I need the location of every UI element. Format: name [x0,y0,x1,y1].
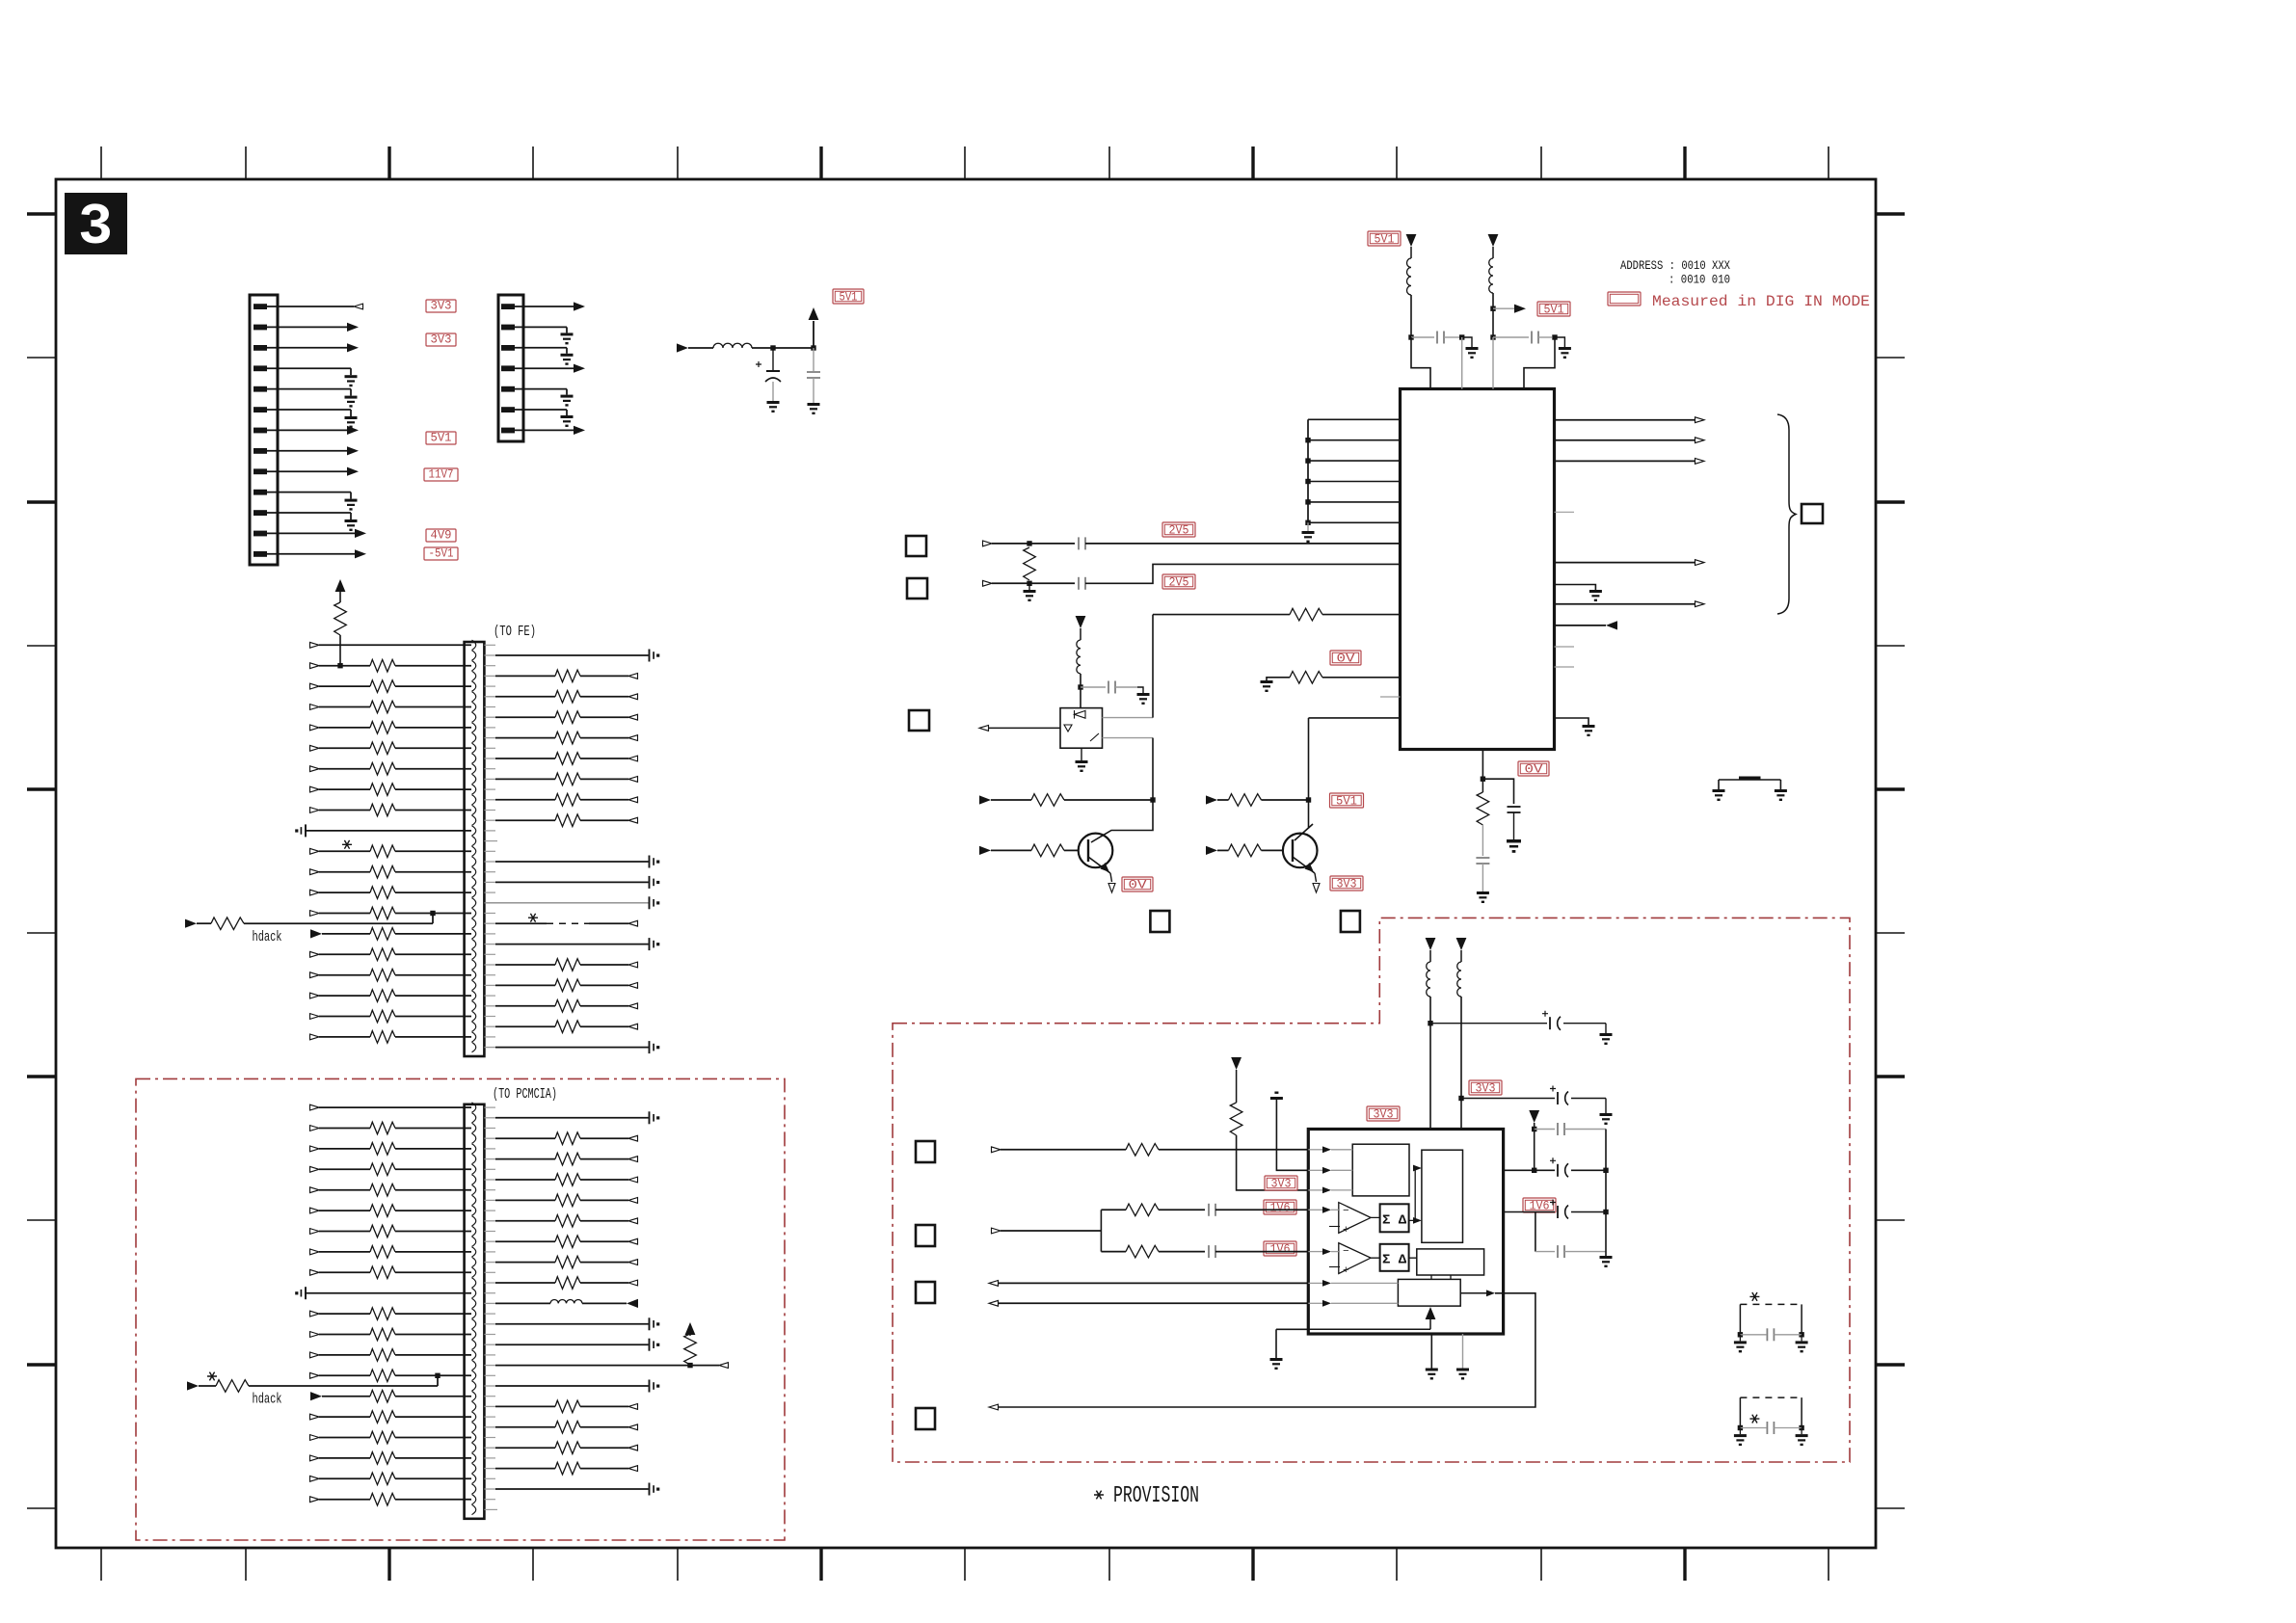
wire CN-A pin 13 to arrow [266,553,355,555]
transistor Q2 [1283,834,1318,868]
wire PC left row 3 input arrow [310,1146,320,1152]
net label 5V1 [833,289,864,304]
wire bus vertical [1307,419,1309,522]
wire to ground [1462,337,1472,347]
power arrow down 3V3 left [1231,1057,1241,1070]
capacitor C1 electrolytic [772,348,774,371]
wire FE right row 18 to arrow [580,1005,628,1007]
ground [1713,789,1725,801]
wire PC right row 5 [484,1199,495,1201]
IC U1 body [1401,389,1555,750]
wire FE left row 9 input arrow [310,808,320,813]
DAC internal wiring [1371,1168,1451,1279]
connector CN-A pin 1 [254,304,267,309]
test point square [1341,911,1360,932]
series capacitor 2V5B [1078,577,1080,590]
Q1 emitter [1088,857,1110,873]
stub [484,1416,495,1418]
resistor PC right row 7 [555,1236,580,1248]
ground [1270,1358,1283,1370]
wire IC input arrow [1555,625,1607,626]
wire FE left row 3 input arrow [310,683,320,689]
ground [1466,347,1479,359]
wire PC right row 15 [484,1405,495,1407]
wire FE left row 3 [395,685,471,687]
wire 2V5B [992,582,1075,584]
wire PC right row 6 [484,1220,495,1222]
net label -5V1 [424,547,458,560]
resistor FE left row 2 [370,659,395,672]
svg-text:1V6: 1V6 [1270,1202,1291,1215]
wire hdack2 to PC row 14 [249,1385,438,1387]
test point square [916,1225,935,1246]
wire hdack2 input [187,1381,199,1390]
stub IC pin [1555,666,1575,668]
gray row cap [1535,1129,1555,1131]
ground [1796,1434,1808,1446]
net label 5V1 [426,432,456,444]
ground [1302,531,1315,543]
stub [484,1231,495,1233]
decoupling cap [649,1111,651,1124]
buffer U2 output tick [1090,733,1099,741]
wire PC right row 17 [484,1447,495,1449]
wire FE left row 6 input arrow [310,745,320,751]
wire PC right row 9 to arrow [580,1282,628,1284]
resistor FE right row 7 [555,773,580,785]
stub [484,953,495,955]
buffer U2 inverter symbol [1064,725,1072,732]
ground [767,401,780,412]
wire FE left row 5 input arrow [310,725,320,731]
DAC output row F [989,1281,999,1287]
junction [1408,334,1413,339]
svg-text:4V9: 4V9 [431,529,452,543]
wire to junction [1064,799,1153,801]
wire rail R [1460,997,1462,1130]
wire Q2 collector input arrow [1206,795,1217,804]
page number badge 3 [65,193,127,254]
wire PC right row 8 to arrow [580,1262,628,1264]
connector CN-A pin 8 [254,448,267,454]
junction [1305,499,1310,504]
provision boundary box (PCMCIA) [136,1078,785,1540]
svg-text:: 0010 010: : 0010 010 [1669,273,1730,287]
wire base [1064,849,1079,851]
resistor 3V3 drop [1230,1103,1242,1135]
wire PC left row 9 input arrow [310,1269,320,1275]
svg-text:(TO FE): (TO FE) [494,624,536,640]
ground [1456,1369,1469,1380]
svg-text:PROVISION: PROVISION [1113,1483,1199,1509]
transistor Q1 [1079,834,1113,868]
ground [561,354,574,365]
resistor PC left row 4 [370,1163,395,1176]
net label 1V6 measured [1264,1241,1296,1256]
wire PC left row 7 [395,1231,471,1233]
wire FE left row 20 [395,1036,471,1038]
resistor FE right row 18 [555,1000,580,1013]
wire PC left row 4 [395,1168,471,1170]
bypass cap DAC rail L [1430,1023,1547,1024]
wire PC left row 11 input arrow [310,1311,320,1317]
pull-up rail arrow [685,1322,696,1335]
junction [770,345,775,350]
wire inside to control block [1308,1328,1430,1330]
test point square [916,1282,935,1303]
stub [484,727,495,729]
net label 3V3 [426,333,456,346]
wire FE right row 6 [484,758,495,759]
wire PC right row 17 to arrow [580,1447,628,1449]
wire to junction [1262,799,1309,801]
svg-text:5V1: 5V1 [1336,795,1357,809]
wire IC pin to ground [1555,718,1589,725]
wire PC left row 12 [395,1334,471,1336]
ground [1734,1341,1747,1352]
resistor PC right row 2 [555,1132,580,1145]
stub [484,933,495,935]
wire buffer lower output [1103,737,1154,739]
ground [1796,1341,1808,1352]
wire row E [1101,1251,1126,1253]
resistor row A [1126,1144,1159,1157]
net label 4V9 [426,529,456,542]
wire CN-A pin 4 to ground [266,367,351,369]
ground stub [1028,583,1030,590]
wire rail2 [1492,293,1494,337]
junction [1305,438,1310,442]
wire CN-A pin 5 to ground [266,388,351,390]
svg-text:Σ Δ: Σ Δ [1382,1213,1407,1229]
wire CN-B pin 2 to ground [514,326,567,328]
wire rail1 to node [1410,295,1412,337]
provision mark [342,840,352,849]
wire FE left row 12 input arrow [310,869,320,875]
wire FE left row 8 input arrow [310,786,320,792]
stub [484,644,495,646]
wire CN-B pin 4 to arrow [514,367,574,369]
wire FE left row 2 [395,665,471,667]
resistor PC right row 15 [555,1400,580,1413]
resistor PC right row 6 [555,1215,580,1228]
connector CN-A body [250,295,278,565]
wire rail1 [1410,247,1412,258]
wire PC left row 14 [395,1374,471,1376]
input arrow row 2V5 A [983,541,993,546]
wire FE right row 4 to arrow [580,716,628,718]
stub [484,1334,495,1336]
inductor rail2 [1489,258,1493,293]
resistor Q2 collector net [1229,794,1262,807]
wire PC right row 12 [484,1344,495,1345]
connector CN-B body [498,295,523,441]
resistor row E [1126,1245,1159,1258]
wire PC left row 2 [395,1128,471,1130]
wire FE right row 19 to arrow [580,1025,628,1027]
connector CN-A pin 12 [254,531,267,537]
connector CN-B pin 2 [501,325,515,331]
junction [1305,520,1310,525]
resistor FE left row 19 [370,1010,395,1023]
stub [484,1210,495,1211]
wire PC right row 3 to arrow [580,1158,628,1160]
wire CN-B pin 6 to ground [514,409,567,411]
connector CN-FE (TO FE) body [465,642,485,1056]
resistor row D [1126,1204,1159,1216]
resistor FE left row 13 [370,887,395,899]
svg-text:0V: 0V [1337,652,1356,666]
wire CN-A pin 12 to arrow [266,532,355,534]
svg-text:hdack: hdack [253,930,282,945]
wire FE right row 7 [484,778,495,780]
resistor FE right row 3 [555,691,580,704]
resistor FE right row 4 [555,711,580,724]
bypass capacitor rail1 [1411,336,1434,338]
junction [1306,797,1311,802]
wire FE right row 12 [484,881,495,883]
inductor L1 [713,343,752,348]
wire rail L [1429,997,1431,1130]
junction [337,663,342,668]
pull-up rail arrow [335,579,346,592]
junction [1428,1021,1432,1025]
resistor pull-up PC [684,1334,697,1365]
connector CN-FE pin contacts [472,640,476,1052]
wire bus row 1 to IC [1308,418,1401,420]
net label 5V1 measured [1368,231,1401,246]
resistor Q1 collector net [1031,794,1064,807]
resistor 0V row [1290,672,1322,684]
resistor FE left row 8 [370,784,395,796]
stub [484,1189,495,1191]
wire PC right row 6 to arrow [580,1220,628,1222]
wire [1080,628,1081,640]
svg-text:-5V1: -5V1 [429,547,454,561]
wire [1460,950,1462,962]
DAC U3 body [1308,1130,1503,1335]
wire IC output [1555,419,1696,421]
junction [1305,479,1310,484]
junction [1078,684,1082,689]
resistor PC right row 18 [555,1462,580,1475]
wire FE right row 7 to arrow [580,778,628,780]
junction [687,1363,692,1368]
wire PC right row 3 [484,1158,495,1160]
decoupling cap [649,876,651,889]
stub [484,891,495,893]
net label 1V6 measured [1523,1198,1556,1212]
wire FE left row 10 [305,830,471,832]
DAC ground stem 2 [1462,1334,1464,1369]
resistor PC left row 15 [370,1390,395,1402]
wire PC left row 15 [395,1396,471,1397]
stub [484,1477,495,1479]
connector CN-A pin 6 [254,407,267,412]
wire bus row 5 to IC [1308,501,1401,503]
resistor PC right row 8 [555,1256,580,1268]
wire FE right row 14 (provision, dashed) [484,922,495,924]
wire FE left row 8 [395,788,471,790]
wire hdack input [185,919,197,928]
connector CN-B pin 1 [501,304,515,309]
wire PC left row 6 input arrow [310,1208,320,1213]
resistor R-pullup [334,602,347,635]
wire [1159,1251,1205,1253]
svg-text:−: − [1343,1206,1349,1217]
legend measured box icon [1608,292,1641,306]
junction [1490,306,1495,311]
junction [1305,458,1310,463]
stub [484,1457,495,1459]
stub [484,810,495,811]
provision mark [207,1372,217,1381]
wire CN-A pin 6 to ground [266,409,351,411]
wire FE left row 5 [395,727,471,729]
power rail 1 arrow down [1406,234,1417,247]
resistor FE right row 17 [555,979,580,992]
wire IC pin to ground [1555,585,1596,591]
wire FE left row 18 [395,995,471,997]
stub [484,706,495,708]
connector CN-A pin 13 [254,551,267,557]
stub [484,850,495,852]
net label 0V measured [1518,761,1549,776]
DAC filter block [1422,1150,1463,1242]
buffer U2 body [1060,708,1103,749]
decoupling cap FE left row 10 [305,824,307,837]
wire CN-A pin 8 to arrow [266,450,348,452]
DAC decoder block [1417,1249,1484,1275]
wire bus row 4 to IC [1308,481,1401,483]
DAC input row A arrow [992,1147,1001,1153]
net label 3V3 measured [1469,1080,1502,1095]
wire to cap branch [1482,779,1513,804]
resistor PC right row 16 [555,1422,580,1434]
wire CN-A pin 2 to arrow [266,326,348,328]
stub [484,1271,495,1273]
wire ground to resistor [1267,678,1290,680]
ground [345,519,358,531]
decoupling cap [649,896,651,909]
wire FE left row 14 [395,913,471,915]
power rail 2 arrow down [1488,234,1499,247]
wire FE left row 14 input arrow [310,911,320,917]
inductor buffer rail [1077,640,1081,674]
power input arrow [677,343,688,352]
bypass capacitor rail2 [1493,336,1529,338]
wire CN-A pin 11 to ground [266,512,351,514]
decoupling cap [649,1317,651,1330]
wire IC output [1555,460,1696,462]
wire inductor to 5V1 node [752,347,814,349]
junction [1552,334,1557,339]
wire FE right row 9 [484,819,495,821]
wire PC left row 5 [395,1189,471,1191]
stub IC pin [1380,696,1401,698]
connector CN-A pin 7 [254,428,267,434]
stub [484,1499,495,1501]
wire PC right row 16 [484,1426,495,1428]
wire 2V5B to IC with jog [1085,564,1401,583]
wire to 5V1 tag [1493,307,1514,309]
wire rail2 [1492,247,1494,258]
wire stem [1534,1123,1535,1170]
wire CN-B pin 5 to ground [514,388,567,390]
provision capacitor network [1740,1397,1802,1398]
resistor PC left row 8 [370,1246,395,1259]
stub [484,1016,495,1018]
wire to DAC [1215,1251,1308,1253]
DAC serial out row [1486,1290,1495,1296]
wire PC left row 4 input arrow [310,1166,320,1172]
wire FE left row 11 input arrow [310,848,320,854]
resistor FE right row 2 [555,670,580,682]
resistor PC left row 11 [370,1308,395,1320]
svg-text:5V1: 5V1 [840,291,858,305]
wire Q2 base input arrow [1206,846,1217,855]
wire PC right row 7 to arrow [580,1240,628,1242]
connector CN-PC pin contacts [472,1103,476,1515]
net label 0V measured [1330,651,1361,665]
wire PC right row 1 [484,1117,495,1119]
wire PC right row 10 ferrite [484,1302,495,1304]
wire hdack to FE row 14 [244,922,433,924]
wire PC right row 2 [484,1137,495,1139]
wire PC left row 17 [395,1437,471,1439]
wire FE right row 13 [484,902,648,904]
5V1 rail arrow up [813,321,814,348]
connector CN-A pin 11 [254,510,267,516]
wire base [1262,849,1284,851]
wire FE left row 18 input arrow [310,993,320,998]
wire PC right row 5 to arrow [580,1199,628,1201]
resistor PC left row 13 [370,1349,395,1362]
wire to junction [1080,674,1081,708]
junction [1603,1210,1608,1214]
resistor FE left row 3 [370,680,395,693]
test point square [909,710,929,731]
resistor PC left row 17 [370,1431,395,1444]
decoupling cap [649,1041,651,1053]
resistor FE left row 9 [370,804,395,816]
stub [484,1437,495,1439]
net label 3V3 measured [1367,1106,1400,1121]
DAC ground stem 1 [1430,1334,1432,1369]
stub [484,913,495,915]
wire FE left row 15 [395,933,471,935]
frame ruler tick marks [27,146,1905,1581]
wire FE right row 8 to arrow [580,799,628,801]
wire PC left row 7 input arrow [310,1229,320,1235]
wire FE right row 2 to arrow [580,675,628,677]
resistor FE right row 9 [555,814,580,827]
wire PC right row 4 to arrow [580,1179,628,1181]
gray row cap 2 [1535,1251,1555,1253]
resistor FE right row 19 [555,1021,580,1033]
wire PC left row 18 [395,1457,471,1459]
decoupling cap [649,856,651,868]
resistor PC right row 17 [555,1442,580,1454]
wire Q1 collector input arrow [979,795,991,804]
svg-text:3V3: 3V3 [1271,1178,1292,1191]
wire FE right row 1 [484,654,495,656]
wire FE left row 2 input arrow [310,663,320,669]
provision mark [528,914,538,922]
wire PC left row 13 input arrow [310,1352,320,1358]
wire PC left row 16 input arrow [310,1414,320,1420]
wire FE right row 17 to arrow [580,984,628,986]
